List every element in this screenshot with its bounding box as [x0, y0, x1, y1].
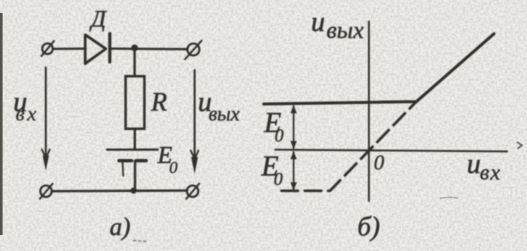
svg-text:0: 0 — [169, 158, 178, 177]
axis u_vyx (vertical) — [368, 22, 370, 202]
E0 measure arrow upper — [290, 105, 296, 149]
svg-text:вых: вых — [209, 104, 240, 126]
terminal BL — [40, 184, 53, 199]
E0 measure arrow lower — [290, 151, 296, 191]
axis u_vx (horizontal) — [275, 150, 507, 152]
node bottom junction — [131, 188, 137, 194]
u_vx arrow — [42, 68, 50, 171]
svg-text:а): а) — [110, 214, 131, 241]
transfer curve solid — [264, 34, 494, 104]
node top junction — [131, 45, 138, 52]
wire resistor to battery — [134, 129, 136, 150]
wire top-right — [110, 47, 187, 50]
svg-text:R: R — [150, 87, 167, 116]
terminal TL — [42, 41, 55, 56]
transfer curve dashed — [282, 102, 417, 191]
svg-text:Д: Д — [89, 7, 107, 32]
svg-text:0: 0 — [274, 169, 283, 189]
axis arrow mark — [518, 142, 522, 148]
wire bottom — [52, 189, 187, 192]
resistor R — [126, 76, 145, 129]
svg-text:б): б) — [357, 211, 380, 241]
terminal TR — [185, 41, 202, 60]
svg-text:0: 0 — [275, 126, 284, 146]
wire top-left — [54, 47, 86, 50]
svg-text:0: 0 — [374, 151, 385, 175]
svg-text:вых: вых — [326, 18, 364, 44]
wire junction to resistor — [133, 48, 135, 76]
svg-text:u: u — [311, 7, 325, 38]
wire battery to bottom — [134, 161, 136, 191]
battery E0 — [107, 150, 158, 176]
diode D — [85, 34, 110, 64]
svg-text:u: u — [467, 149, 481, 180]
svg-text:вх: вх — [480, 159, 501, 184]
terminal BR — [186, 184, 199, 199]
svg-text:вх: вх — [16, 101, 39, 125]
u_vyx arrow — [191, 70, 199, 174]
